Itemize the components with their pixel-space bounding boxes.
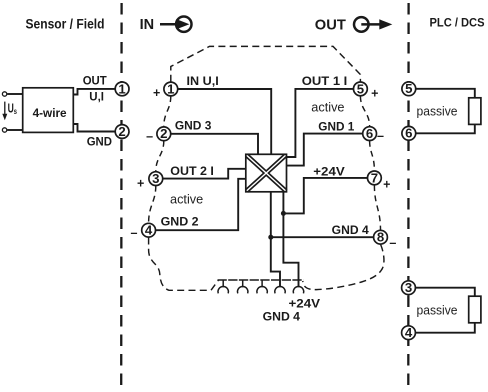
svg-text:OUT 2 I: OUT 2 I — [170, 164, 214, 178]
wire GND 3 terminal 2 to isolator — [171, 134, 259, 155]
resistor R2 (passive load bottom) — [469, 296, 481, 323]
svg-text:4: 4 — [405, 325, 413, 340]
source terminal lower (open circle) — [2, 128, 6, 132]
wire IN U,I terminal 1 to isolator — [178, 89, 272, 154]
device terminal 3 — [149, 171, 163, 186]
wire PLC passive load bottom (terminal 3 to resistor) — [415, 288, 475, 333]
wire GND 2 terminal 4 to isolator — [155, 179, 246, 230]
svg-text:GND 4: GND 4 — [332, 223, 369, 237]
svg-text:2: 2 — [160, 126, 167, 141]
svg-text:1: 1 — [167, 81, 174, 96]
wire GND 1 terminal 6 to isolator — [287, 134, 363, 166]
wire source upper to 4-wire box — [7, 93, 23, 95]
svg-text:IN: IN — [140, 16, 155, 33]
wire 4-wire OUT U,I to terminal 1 — [73, 89, 114, 95]
svg-text:Sensor / Field: Sensor / Field — [26, 16, 105, 32]
device terminal 4 — [142, 223, 156, 238]
junction GND 4 — [268, 235, 273, 240]
junction +24V — [281, 211, 286, 216]
device terminal 5 — [354, 81, 368, 96]
svg-text:GND 1: GND 1 — [318, 119, 354, 133]
svg-text:6: 6 — [366, 126, 373, 141]
device outline dashed top — [171, 46, 361, 81]
4-wire transmitter box T1 — [23, 88, 74, 133]
svg-text:GND: GND — [87, 134, 113, 148]
svg-text:4: 4 — [145, 223, 153, 238]
IN direction icon (arrow into circle) — [160, 17, 192, 32]
svg-text:1: 1 — [118, 81, 125, 96]
device outline dashed left column — [149, 96, 171, 223]
svg-text:GND 3: GND 3 — [175, 119, 212, 133]
svg-text:–: – — [131, 226, 138, 240]
svg-text:passive: passive — [417, 303, 458, 317]
wire source lower to 4-wire box — [7, 129, 23, 131]
wire GND 4 terminal 8 to bus — [271, 236, 374, 238]
terminal circle 4 (right separator) — [402, 325, 416, 340]
svg-text:passive: passive — [417, 104, 458, 118]
svg-text:+: + — [383, 177, 390, 191]
separator line left (Sensor/Field | IN) — [120, 3, 123, 391]
svg-text:5: 5 — [357, 81, 364, 96]
svg-text:2: 2 — [118, 124, 125, 139]
svg-text:+: + — [153, 86, 160, 100]
wire OUT 2 I terminal 3 to isolator — [163, 169, 246, 179]
wire 4-wire GND to terminal 2 — [73, 124, 114, 132]
OUT direction icon (arrow out of circle) — [354, 17, 381, 32]
device outline bus row line — [218, 279, 304, 281]
svg-text:GND 4: GND 4 — [263, 309, 301, 323]
wire OUT 1 I terminal 5 to isolator — [287, 89, 354, 157]
svg-text:+24V: +24V — [313, 165, 344, 179]
svg-text:3: 3 — [405, 280, 412, 295]
svg-text:4-wire: 4-wire — [33, 106, 67, 120]
svg-text:3: 3 — [152, 171, 159, 186]
svg-text:–: – — [146, 129, 153, 143]
Us source voltage arrow — [4, 102, 6, 115]
wire PLC passive load top (terminal 5 to resistor) — [415, 89, 475, 134]
svg-text:+: + — [371, 87, 378, 101]
svg-text:–: – — [377, 129, 384, 143]
isolator U1 (square with X) — [246, 154, 287, 192]
svg-text:s: s — [14, 106, 17, 116]
svg-text:+: + — [137, 177, 144, 191]
bus foot 2 — [238, 280, 248, 293]
bus foot 5 (+24V) — [293, 286, 303, 293]
svg-text:GND 2: GND 2 — [161, 214, 199, 228]
device outline dashed bottom-left curve — [149, 238, 219, 291]
svg-text:+24V: +24V — [289, 297, 321, 311]
device terminal 2 — [157, 126, 171, 141]
wire isolator to GND 4 bus foot — [271, 192, 280, 287]
svg-text:OUT 1 I: OUT 1 I — [302, 74, 348, 88]
bus foot 1 — [218, 280, 228, 293]
device outline dashed bottom-right curve — [303, 245, 384, 290]
svg-text:–: – — [389, 236, 396, 250]
terminal circle 6 (right separator) — [402, 126, 416, 141]
svg-text:U,I: U,I — [89, 89, 104, 103]
terminal circle 2 (left separator) — [115, 124, 129, 139]
svg-text:5: 5 — [405, 81, 412, 96]
bus foot 4 (GND 4) — [275, 286, 285, 293]
terminal circle 5 (right separator) — [402, 81, 416, 96]
terminal circle 1 (left separator) — [115, 81, 129, 96]
svg-text:IN U,I: IN U,I — [187, 74, 219, 88]
svg-text:active: active — [311, 101, 344, 115]
separator line right (OUT | PLC/DCS) — [407, 3, 410, 391]
device outline dashed right column — [360, 96, 380, 230]
bus foot 3 — [257, 280, 267, 293]
device terminal 7 — [368, 170, 382, 185]
resistor R1 (passive load top) — [469, 98, 481, 125]
wire +24V terminal 7 to bus — [283, 178, 367, 214]
svg-text:OUT: OUT — [315, 16, 346, 33]
device terminal 1 — [164, 81, 178, 96]
wire isolator to +24V bus foot — [283, 192, 298, 287]
svg-text:8: 8 — [377, 230, 384, 245]
svg-text:OUT: OUT — [83, 73, 108, 87]
svg-text:PLC / DCS: PLC / DCS — [430, 15, 485, 29]
svg-text:active: active — [170, 192, 203, 206]
terminal circle 3 (right separator) — [402, 280, 416, 295]
device terminal 8 — [374, 230, 388, 245]
device terminal 6 — [363, 126, 377, 141]
source terminal upper (open circle) — [2, 92, 6, 96]
svg-text:6: 6 — [405, 126, 412, 141]
svg-text:7: 7 — [371, 170, 378, 185]
